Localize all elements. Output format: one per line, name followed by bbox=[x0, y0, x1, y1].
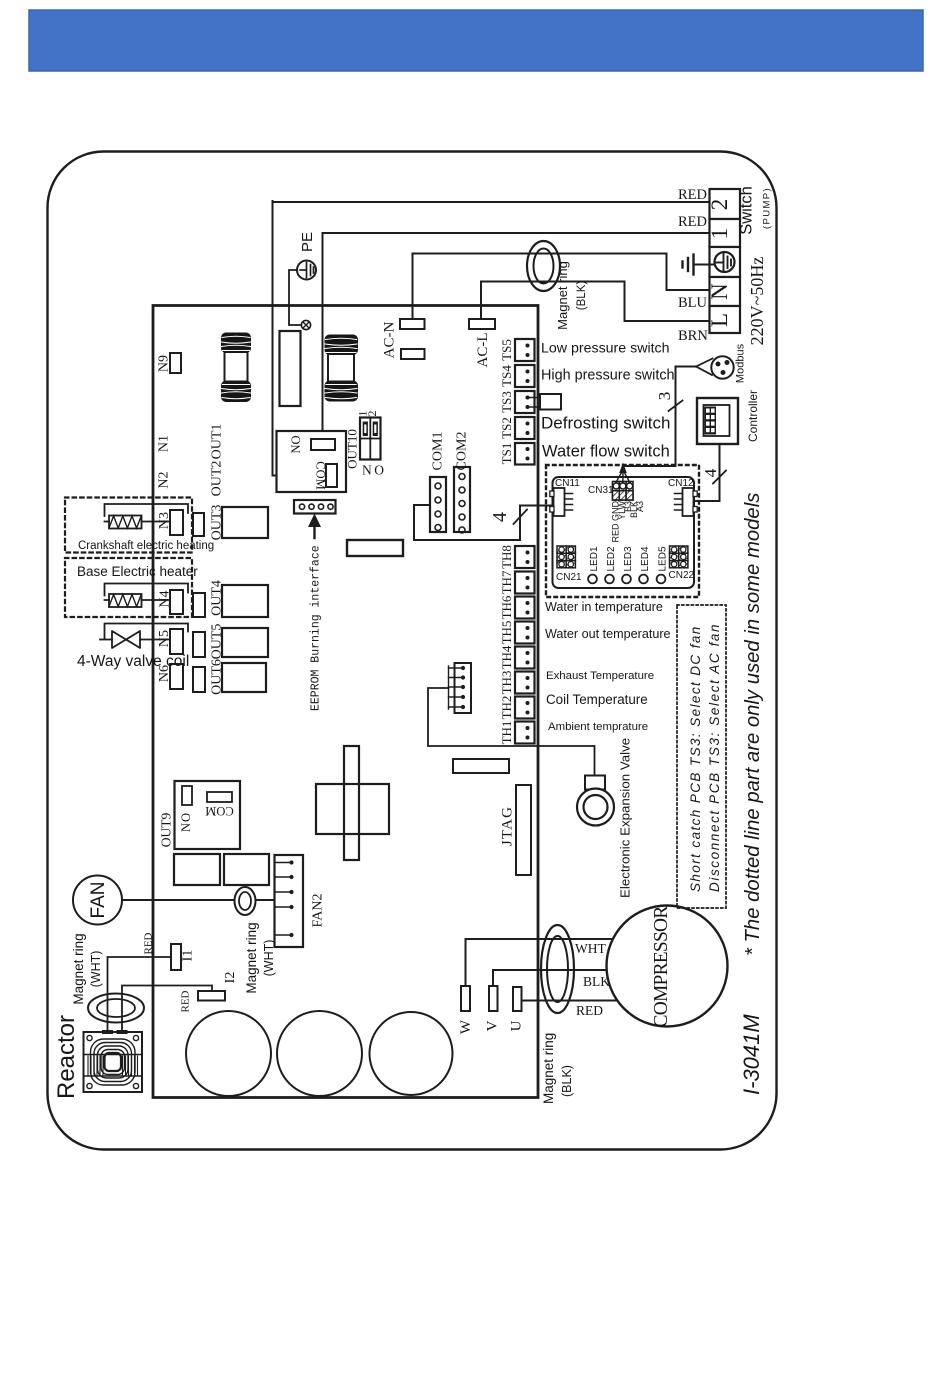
svg-text:Magnet ring: Magnet ring bbox=[244, 922, 259, 993]
svg-text:Electronic Expansion Valve: Electronic Expansion Valve bbox=[618, 738, 633, 898]
svg-text:(WHT): (WHT) bbox=[89, 951, 103, 988]
svg-text:Defrosting switch: Defrosting switch bbox=[541, 414, 670, 433]
svg-text:TS4: TS4 bbox=[499, 365, 514, 387]
svg-text:Controller: Controller bbox=[746, 390, 760, 442]
svg-text:WHT: WHT bbox=[575, 941, 606, 956]
svg-text:Water in temperature: Water in temperature bbox=[545, 600, 663, 614]
svg-text:Water flow switch: Water flow switch bbox=[542, 443, 670, 461]
svg-text:LED3: LED3 bbox=[623, 546, 634, 571]
svg-text:Magnet ring: Magnet ring bbox=[541, 1033, 556, 1104]
svg-text:(BLK): (BLK) bbox=[560, 1065, 574, 1097]
svg-text:Coil Temperature: Coil Temperature bbox=[546, 692, 648, 707]
svg-text:TH1: TH1 bbox=[499, 721, 514, 745]
svg-text:OUT10: OUT10 bbox=[345, 429, 360, 469]
svg-text:Modbus: Modbus bbox=[735, 343, 747, 383]
svg-text:2: 2 bbox=[365, 411, 379, 417]
svg-text:Magnet ring: Magnet ring bbox=[555, 261, 570, 330]
svg-text:CN31: CN31 bbox=[588, 485, 614, 496]
svg-text:LED2: LED2 bbox=[606, 546, 617, 571]
svg-text:COM2: COM2 bbox=[455, 432, 470, 471]
svg-text:TS5: TS5 bbox=[499, 339, 514, 361]
svg-text:* The dotted line part are onl: * The dotted line part are only used in … bbox=[742, 493, 764, 956]
svg-text:BLU: BLU bbox=[678, 295, 708, 311]
svg-text:JTAG: JTAG bbox=[500, 806, 516, 846]
svg-text:OUT9: OUT9 bbox=[159, 813, 174, 848]
svg-text:N9: N9 bbox=[157, 355, 172, 372]
svg-text:A3: A3 bbox=[635, 501, 645, 512]
svg-text:LED1: LED1 bbox=[589, 546, 600, 571]
svg-text:RED: RED bbox=[180, 990, 192, 1012]
svg-text:RED: RED bbox=[678, 214, 707, 230]
svg-text:Short catch PCB TS3: Select D: Short catch PCB TS3: Select DC fan bbox=[688, 625, 703, 892]
svg-text:I-3041M: I-3041M bbox=[739, 1014, 764, 1095]
svg-text:EEPROM Burning interface: EEPROM Burning interface bbox=[310, 545, 323, 711]
svg-text:TS2: TS2 bbox=[499, 417, 514, 439]
svg-text:BRN: BRN bbox=[678, 328, 708, 344]
svg-text:COM: COM bbox=[205, 804, 233, 818]
svg-text:RED: RED bbox=[576, 1003, 603, 1018]
svg-text:W: W bbox=[458, 1019, 474, 1034]
svg-text:NO: NO bbox=[289, 435, 303, 453]
svg-text:TH8: TH8 bbox=[499, 545, 514, 569]
svg-text:AC-L: AC-L bbox=[475, 333, 491, 368]
svg-text:4: 4 bbox=[489, 512, 511, 522]
svg-text:CN22: CN22 bbox=[669, 570, 695, 581]
svg-text:COM1: COM1 bbox=[431, 432, 446, 471]
svg-text:RED: RED bbox=[143, 932, 155, 954]
svg-text:Reactor: Reactor bbox=[53, 1015, 80, 1099]
svg-text:N1: N1 bbox=[157, 435, 172, 452]
svg-text:L: L bbox=[707, 313, 732, 327]
svg-text:I2: I2 bbox=[223, 972, 238, 984]
svg-text:V: V bbox=[485, 1020, 501, 1031]
svg-text:COMPRESSOR: COMPRESSOR bbox=[651, 906, 672, 1028]
svg-text:AC-N: AC-N bbox=[382, 322, 398, 359]
svg-text:Low pressure switch: Low pressure switch bbox=[541, 341, 670, 357]
svg-text:TH5: TH5 bbox=[499, 621, 514, 645]
svg-text:OUT2: OUT2 bbox=[210, 461, 225, 497]
svg-text:(BLK): (BLK) bbox=[576, 281, 588, 311]
svg-text:TH4: TH4 bbox=[499, 645, 514, 669]
svg-text:4-Way valve coil: 4-Way valve coil bbox=[77, 653, 189, 670]
svg-text:Switch: Switch bbox=[738, 186, 756, 235]
svg-text:COM: COM bbox=[314, 461, 328, 489]
svg-text:CN21: CN21 bbox=[556, 572, 582, 583]
svg-text:TH3: TH3 bbox=[499, 671, 514, 695]
svg-text:TS3: TS3 bbox=[499, 391, 514, 413]
svg-text:Disconnect PCB TS3: Select AC: Disconnect PCB TS3: Select AC fan bbox=[707, 623, 722, 892]
svg-text:2: 2 bbox=[707, 199, 732, 211]
svg-text:High pressure switch: High pressure switch bbox=[541, 368, 675, 384]
svg-text:PE: PE bbox=[299, 232, 316, 252]
svg-text:4: 4 bbox=[701, 468, 720, 477]
svg-text:Ambient temprature: Ambient temprature bbox=[548, 721, 648, 733]
svg-text:RED: RED bbox=[678, 187, 707, 203]
svg-text:TH2: TH2 bbox=[499, 696, 514, 720]
svg-text:Crankshaft electric heating: Crankshaft electric heating bbox=[78, 540, 214, 552]
svg-text:NO: NO bbox=[362, 463, 387, 478]
svg-text:(WHT): (WHT) bbox=[262, 940, 276, 977]
svg-text:Magnet ring: Magnet ring bbox=[71, 933, 86, 1004]
svg-text:LED5: LED5 bbox=[658, 546, 669, 571]
svg-text:FAN: FAN bbox=[88, 882, 109, 919]
svg-text:LED4: LED4 bbox=[640, 546, 651, 571]
svg-text:N2: N2 bbox=[157, 471, 172, 488]
svg-text:Base Electric heater: Base Electric heater bbox=[77, 564, 198, 579]
svg-text:FAN2: FAN2 bbox=[311, 894, 326, 928]
svg-text:TH6: TH6 bbox=[499, 595, 514, 619]
svg-text:Water out temperature: Water out temperature bbox=[545, 627, 671, 641]
svg-text:220V~50Hz: 220V~50Hz bbox=[747, 257, 767, 346]
svg-text:TS1: TS1 bbox=[499, 443, 514, 465]
svg-text:Exhaust Temperature: Exhaust Temperature bbox=[546, 670, 654, 682]
svg-text:(PUMP): (PUMP) bbox=[762, 187, 773, 229]
svg-text:NO: NO bbox=[179, 812, 193, 832]
svg-text:TH7: TH7 bbox=[499, 570, 514, 594]
svg-text:N: N bbox=[707, 283, 732, 300]
svg-text:OUT1: OUT1 bbox=[210, 424, 225, 460]
svg-text:U: U bbox=[509, 1020, 525, 1031]
svg-text:1: 1 bbox=[707, 228, 732, 240]
svg-text:3: 3 bbox=[655, 392, 674, 401]
svg-text:I1: I1 bbox=[181, 950, 196, 962]
